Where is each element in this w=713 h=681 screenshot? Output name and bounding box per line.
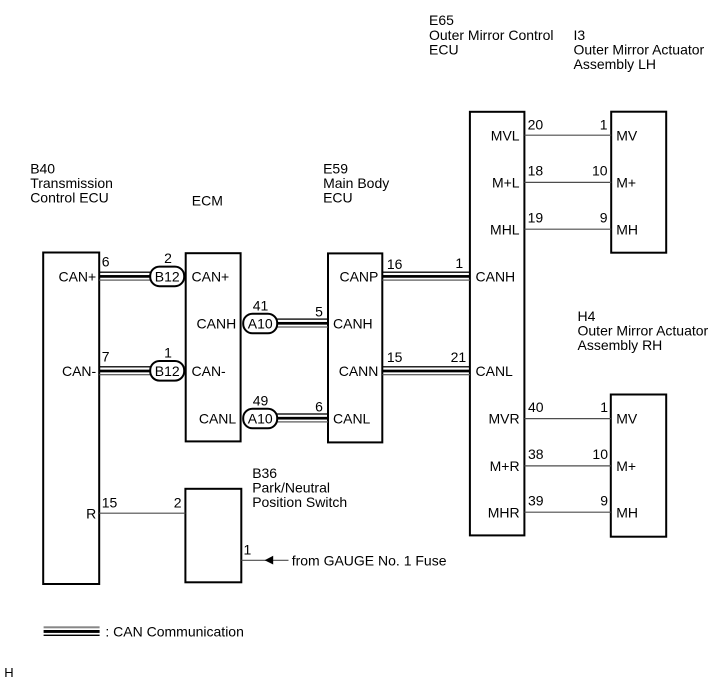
svg-text:19: 19 bbox=[528, 209, 544, 225]
svg-text:CANL: CANL bbox=[476, 363, 514, 379]
box I3 Outer Mirror Actuator Assembly LH bbox=[611, 112, 666, 253]
svg-text:CANP: CANP bbox=[339, 269, 378, 285]
svg-text:5: 5 bbox=[315, 304, 323, 320]
box E65 Outer Mirror Control ECU bbox=[470, 112, 525, 536]
svg-text:B12: B12 bbox=[155, 363, 180, 379]
box E59 Main Body ECU bbox=[328, 253, 382, 442]
svg-text:H4Outer Mirror ActuatorAssembl: H4Outer Mirror ActuatorAssembly RH bbox=[578, 308, 709, 353]
svg-text:16: 16 bbox=[387, 256, 403, 272]
svg-text:1: 1 bbox=[244, 542, 252, 558]
svg-text:M+R: M+R bbox=[490, 458, 520, 474]
svg-text:E59Main BodyECU: E59Main BodyECU bbox=[323, 160, 389, 205]
connector B12 row CAN- bbox=[150, 361, 184, 381]
svg-text:38: 38 bbox=[528, 446, 544, 462]
svg-text:21: 21 bbox=[451, 349, 467, 365]
svg-text:M+L: M+L bbox=[492, 175, 520, 191]
arrow from GAUGE No. 1 Fuse bbox=[265, 556, 274, 565]
box B40 Transmission Control ECU bbox=[43, 253, 99, 585]
svg-text:ECM: ECM bbox=[192, 193, 223, 209]
svg-text:CANH: CANH bbox=[197, 315, 237, 331]
wire M+L E65 to I3 M+ bbox=[524, 181, 611, 183]
connector A10 row CANH bbox=[243, 314, 277, 334]
svg-text:I3Outer Mirror ActuatorAssembl: I3Outer Mirror ActuatorAssembly LH bbox=[574, 27, 705, 72]
svg-text:M+: M+ bbox=[616, 175, 636, 191]
svg-text:10: 10 bbox=[592, 446, 608, 462]
svg-text:B36Park/NeutralPosition Switch: B36Park/NeutralPosition Switch bbox=[252, 465, 347, 510]
svg-text:6: 6 bbox=[315, 398, 323, 414]
svg-text:B40TransmissionControl ECU: B40TransmissionControl ECU bbox=[30, 160, 113, 205]
svg-text:MV: MV bbox=[616, 127, 638, 143]
svg-text:39: 39 bbox=[528, 493, 544, 509]
wire CANL A10 to E59 bbox=[275, 413, 328, 422]
svg-text:6: 6 bbox=[102, 254, 110, 270]
legend CAN communication symbol bbox=[44, 626, 100, 636]
box H4 Outer Mirror Actuator Assembly RH bbox=[611, 395, 666, 537]
wire CAN+ B40 to B12 bbox=[99, 272, 153, 281]
svg-text:1: 1 bbox=[455, 255, 463, 271]
svg-text:49: 49 bbox=[253, 393, 269, 409]
svg-text:MHL: MHL bbox=[490, 221, 520, 237]
svg-text:1: 1 bbox=[600, 116, 608, 132]
box ECM bbox=[186, 253, 241, 441]
svg-text:M+: M+ bbox=[616, 458, 636, 474]
svg-text:CANH: CANH bbox=[333, 315, 373, 331]
wire MHL E65 to I3 MH bbox=[524, 228, 611, 230]
svg-text:41: 41 bbox=[253, 298, 269, 314]
svg-text:A10: A10 bbox=[248, 316, 273, 332]
svg-text:1: 1 bbox=[600, 399, 608, 415]
wire R B40 to B36 bbox=[99, 512, 185, 514]
svg-text:CAN+: CAN+ bbox=[58, 269, 96, 285]
svg-text:10: 10 bbox=[592, 163, 608, 179]
svg-text:2: 2 bbox=[174, 495, 182, 511]
wire M+R E65 to H4 M+ bbox=[524, 465, 610, 467]
svg-text:CANN: CANN bbox=[339, 363, 379, 379]
wire CANP E59 to E65 CANH bbox=[382, 272, 470, 281]
wire CANH A10 to E59 bbox=[275, 318, 328, 327]
svg-text:9: 9 bbox=[600, 209, 608, 225]
svg-text:MH: MH bbox=[616, 221, 638, 237]
wire from GAUGE No.1 Fuse bbox=[241, 559, 288, 561]
svg-text:B12: B12 bbox=[155, 269, 180, 285]
svg-text:H: H bbox=[4, 665, 13, 680]
svg-text:CAN-: CAN- bbox=[62, 363, 97, 379]
svg-text:from GAUGE No. 1 Fuse: from GAUGE No. 1 Fuse bbox=[292, 552, 447, 568]
svg-text:CAN+: CAN+ bbox=[192, 269, 230, 285]
svg-text:: CAN Communication: : CAN Communication bbox=[105, 623, 244, 639]
svg-text:MVL: MVL bbox=[491, 127, 520, 143]
svg-text:1: 1 bbox=[164, 345, 172, 361]
svg-text:40: 40 bbox=[528, 399, 544, 415]
svg-text:9: 9 bbox=[600, 493, 608, 509]
svg-text:E65Outer Mirror ControlECU: E65Outer Mirror ControlECU bbox=[429, 12, 553, 57]
wire MVL E65 to I3 MV bbox=[524, 134, 611, 136]
svg-text:MV: MV bbox=[616, 411, 638, 427]
svg-text:2: 2 bbox=[164, 250, 172, 266]
wire MHR E65 to H4 MH bbox=[524, 511, 610, 513]
svg-text:7: 7 bbox=[102, 349, 110, 365]
svg-text:18: 18 bbox=[528, 163, 544, 179]
wire CAN- B40 to B12 bbox=[99, 366, 153, 375]
svg-text:MH: MH bbox=[616, 504, 638, 520]
svg-text:MVR: MVR bbox=[488, 411, 519, 427]
svg-text:15: 15 bbox=[387, 349, 403, 365]
svg-text:20: 20 bbox=[528, 116, 544, 132]
svg-text:R: R bbox=[86, 505, 96, 521]
svg-text:A10: A10 bbox=[248, 411, 273, 427]
connector B12 row CAN+ bbox=[150, 267, 184, 287]
wire MVR E65 to H4 MV bbox=[524, 418, 610, 420]
svg-text:CANL: CANL bbox=[199, 410, 237, 426]
box B36 Park/Neutral Position Switch bbox=[185, 489, 241, 583]
connector A10 row CANL bbox=[243, 409, 277, 429]
svg-text:CANL: CANL bbox=[333, 410, 371, 426]
svg-text:MHR: MHR bbox=[488, 504, 520, 520]
svg-text:CAN-: CAN- bbox=[192, 363, 227, 379]
svg-text:CANH: CANH bbox=[476, 269, 516, 285]
wire CANN E59 to E65 CANL bbox=[382, 366, 470, 375]
svg-text:15: 15 bbox=[102, 495, 118, 511]
